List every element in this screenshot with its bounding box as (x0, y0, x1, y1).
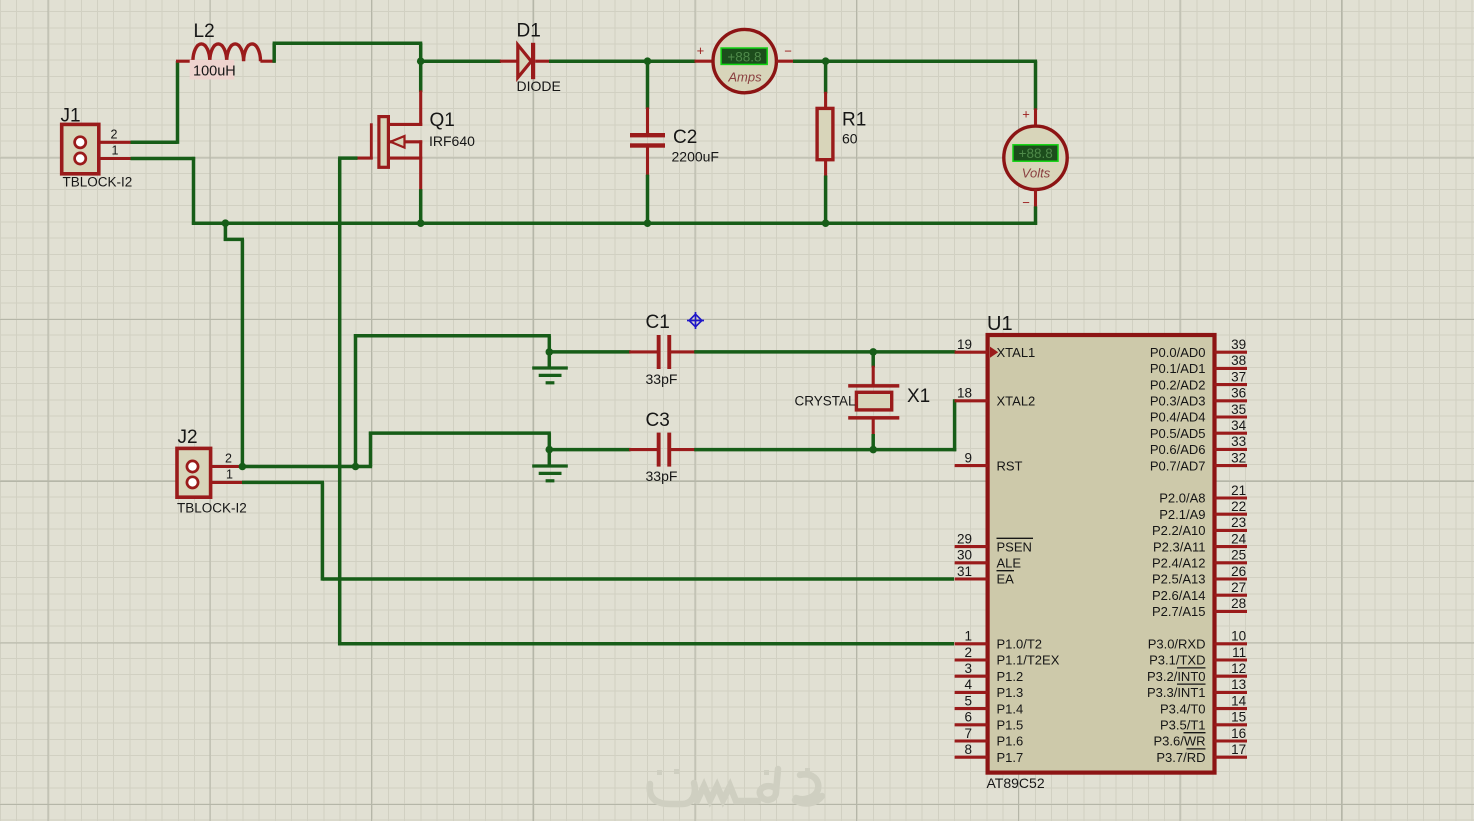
pin 22 P2.1/A9 (right stub) (1215, 513, 1248, 516)
crystal X1 bottom wire (871, 434, 875, 450)
pin 2 P1.1/T2EX (left stub) (955, 658, 988, 661)
svg-text:−: − (1022, 195, 1030, 210)
wire J1 pin1 riser (192, 157, 196, 225)
connector J1 body (62, 124, 99, 173)
wire J1 pin 1 stub (component lead) (99, 157, 131, 160)
pin 28 P2.7/A15 (right stub) (1215, 610, 1248, 613)
svg-text:P0.5/AD5: P0.5/AD5 (1150, 426, 1206, 441)
wire ammeter + lead (component lead) (695, 60, 714, 63)
svg-text:DIODE: DIODE (517, 78, 561, 94)
svg-text:2: 2 (111, 128, 118, 142)
svg-text:P3.0/RXD: P3.0/RXD (1148, 637, 1206, 652)
resistor R1 bottom lead (824, 160, 827, 177)
pin 14 P3.4/T0 (right stub) (1215, 707, 1248, 710)
node source/rail (junction) (417, 219, 425, 227)
svg-text:15: 15 (1231, 710, 1246, 725)
wire J2 pin2 run (242, 465, 372, 469)
svg-text:AT89C52: AT89C52 (987, 775, 1045, 791)
overline RD (1187, 748, 1206, 750)
svg-text:P3.6/WR: P3.6/WR (1153, 734, 1205, 749)
svg-text:XTAL2: XTAL2 (997, 394, 1036, 409)
voltmeter instrument circle (1004, 126, 1067, 189)
capacitor C2 top lead (646, 107, 649, 134)
pin 10 P3.0/RXD (right stub) (1215, 642, 1248, 645)
wire J2 pin 2 stub (component lead) (211, 465, 243, 468)
pin 23 P2.2/A10 (right stub) (1215, 529, 1248, 532)
wire top run to Q1 drain column (273, 41, 423, 45)
capacitor C3 right plate (667, 433, 671, 467)
crystal X1 top lead (872, 366, 875, 385)
svg-text:L2: L2 (194, 21, 215, 42)
svg-text:IRF640: IRF640 (429, 133, 475, 149)
svg-text:19: 19 (957, 337, 972, 352)
svg-text:P3.2/INT0: P3.2/INT0 (1147, 669, 1206, 684)
svg-text:28: 28 (1231, 596, 1246, 611)
pin 37 P0.2/AD2 (right stub) (1215, 383, 1248, 386)
node J2 pin2 (junction) (239, 463, 247, 471)
svg-text:11: 11 (1232, 645, 1246, 660)
transistor Q1 right vertical lead (419, 140, 422, 191)
pin 29 PSEN (left stub) (955, 545, 988, 548)
pin 34 P0.5/AD5 (right stub) (1215, 432, 1248, 435)
transistor Q1 body lead with arrow (388, 140, 422, 143)
wire inductor out up (272, 43, 276, 63)
svg-text:RST: RST (997, 458, 1023, 473)
crystal X1 top wire (871, 352, 875, 367)
voltmeter + lead (1034, 108, 1037, 127)
svg-text:XTAL1: XTAL1 (997, 345, 1036, 360)
transistor Q1 channel bar (379, 117, 389, 168)
svg-text:26: 26 (1231, 564, 1246, 579)
overline INTx (1177, 683, 1206, 685)
pin 30 ALE (left stub) (955, 561, 988, 564)
pin 19 XTAL1 (left stub) (955, 351, 988, 354)
pin 5 P1.4 (left stub) (955, 707, 988, 710)
svg-text:10: 10 (1231, 629, 1246, 644)
svg-text:16: 16 (1231, 726, 1246, 741)
svg-text:Amps: Amps (727, 70, 762, 85)
svg-text:P3.7/RD: P3.7/RD (1156, 750, 1205, 765)
wire voltmeter drop (1034, 61, 1038, 110)
node rail/J2 drop (junction) (222, 219, 230, 227)
overline INTx (1177, 667, 1206, 669)
svg-text:P0.4/AD4: P0.4/AD4 (1150, 410, 1206, 425)
svg-text:P2.5/A13: P2.5/A13 (1152, 572, 1206, 587)
node C2 bottom (junction) (644, 219, 652, 227)
svg-text:C2: C2 (673, 127, 697, 148)
pin 17 P3.7/RD (right stub) (1215, 756, 1248, 759)
svg-text:P3.5/T1: P3.5/T1 (1160, 718, 1206, 733)
svg-text:1: 1 (226, 468, 233, 482)
wire ammeter to R1 node to voltmeter corner (793, 59, 1037, 63)
svg-text:100uH: 100uH (193, 63, 236, 79)
svg-text:D1: D1 (517, 21, 541, 42)
svg-text:P0.3/AD3: P0.3/AD3 (1150, 394, 1206, 409)
svg-text:2: 2 (225, 452, 232, 466)
transistor Q1 drain horizontal lead (387, 123, 422, 126)
pin 24 P2.3/A11 (right stub) (1215, 545, 1248, 548)
svg-text:33pF: 33pF (646, 468, 678, 484)
svg-text:P2.1/A9: P2.1/A9 (1159, 507, 1205, 522)
node C1/ground (junction) (546, 348, 554, 356)
pin 4 P1.3 (left stub) (955, 691, 988, 694)
wire rail to J2 step right (224, 238, 244, 242)
wire C1 to crystal node (694, 350, 875, 354)
node C1 riser (junction) (352, 463, 360, 471)
transistor Q1 arrow (391, 136, 405, 148)
svg-text:P3.4/T0: P3.4/T0 (1160, 701, 1206, 716)
svg-text:P1.7: P1.7 (997, 750, 1024, 765)
svg-text:22: 22 (1231, 499, 1246, 514)
wire down to C1 node (548, 336, 552, 352)
label L2 value highlight box (190, 60, 235, 80)
node C3/ground (junction) (546, 446, 554, 454)
node origin marker (blue) (687, 312, 704, 329)
pin 7 P1.6 (left stub) (955, 739, 988, 742)
wire C3 right lead (component lead) (671, 448, 696, 451)
svg-text:37: 37 (1231, 369, 1246, 384)
transistor Q1 drain wire (green) (419, 61, 423, 92)
svg-text:P1.6: P1.6 (997, 734, 1024, 749)
wire down to drain node (419, 43, 423, 61)
capacitor C3 left plate (657, 433, 661, 467)
svg-text:J1: J1 (61, 106, 81, 127)
inductor L2 left lead (176, 60, 194, 63)
wire C1 riser up (354, 334, 358, 468)
inductor L2 coil (193, 44, 261, 61)
svg-text:+88.8: +88.8 (1019, 146, 1053, 161)
svg-text:P2.2/A10: P2.2/A10 (1152, 523, 1206, 538)
wire D1 anode lead (component lead) (500, 60, 517, 63)
svg-text:35: 35 (1231, 402, 1246, 417)
svg-text:24: 24 (1231, 531, 1247, 546)
ground (C1) lead (548, 352, 552, 367)
capacitor C1 left plate (657, 335, 661, 369)
capacitor C2 bottom plate (630, 143, 665, 147)
svg-text:32: 32 (1231, 450, 1246, 465)
node R1 top (junction) (822, 57, 830, 65)
pin XTAL1 clock arrow (990, 347, 998, 358)
pin 8 P1.7 (left stub) (955, 756, 988, 759)
pin 3 P1.2 (left stub) (955, 675, 988, 678)
pin 27 P2.6/A14 (right stub) (1215, 594, 1248, 597)
node drain top (junction) (417, 57, 425, 65)
wire down to J2 pin2 (241, 239, 245, 466)
node crystal top (junction) (869, 348, 877, 356)
transistor Q1 gate bar (370, 123, 373, 159)
svg-text:P0.6/AD6: P0.6/AD6 (1150, 442, 1206, 457)
svg-text:U1: U1 (987, 313, 1013, 335)
wire C1 feed run (354, 334, 551, 338)
svg-text:38: 38 (1231, 353, 1246, 368)
pin 18 XTAL2 (left stub) (955, 399, 988, 402)
wire D1 cathode lead (component lead) (535, 60, 550, 63)
svg-text:TBLOCK-I2: TBLOCK-I2 (63, 174, 133, 189)
connector J2 pad pin 1 (187, 477, 198, 488)
svg-text:+88.8: +88.8 (727, 49, 761, 64)
svg-text:36: 36 (1231, 386, 1246, 401)
svg-text:14: 14 (1231, 693, 1247, 708)
svg-text:P0.7/AD7: P0.7/AD7 (1150, 458, 1206, 473)
wire C2 node down (646, 61, 650, 109)
wire C1 node to cap (549, 350, 630, 354)
svg-text:29: 29 (957, 531, 972, 546)
svg-text:−: − (784, 44, 792, 59)
wire ground rail (192, 221, 1037, 225)
svg-text:P0.0/AD0: P0.0/AD0 (1150, 345, 1206, 360)
pin 39 P0.0/AD0 (right stub) (1215, 351, 1248, 354)
svg-text:CRYSTAL: CRYSTAL (794, 394, 856, 409)
transistor Q1 drain lead (419, 90, 422, 126)
svg-text:P2.6/A14: P2.6/A14 (1152, 588, 1206, 603)
pin 11 P3.1/TXD (right stub) (1215, 658, 1248, 661)
connector J1 pad pin 2 (75, 137, 86, 148)
resistor R1 top lead (824, 92, 827, 110)
svg-text:EA: EA (997, 572, 1015, 587)
svg-text:P1.2: P1.2 (997, 669, 1024, 684)
svg-text:1: 1 (112, 144, 119, 158)
svg-text:5: 5 (964, 693, 972, 708)
svg-text:P2.7/A15: P2.7/A15 (1152, 604, 1206, 619)
svg-text:8: 8 (964, 742, 972, 757)
capacitor C2 top plate (630, 133, 665, 137)
svg-text:PSEN: PSEN (997, 539, 1032, 554)
svg-text:Q1: Q1 (430, 110, 455, 131)
svg-text:TBLOCK-I2: TBLOCK-I2 (177, 501, 247, 516)
diode D1 triangle (518, 45, 531, 78)
wire C3 left lead (component lead) (629, 448, 657, 451)
wire P1.0 row run (338, 642, 954, 646)
svg-text:X1: X1 (907, 386, 930, 407)
wire crystal node to XTAL1 stub (873, 350, 956, 354)
svg-text:31: 31 (957, 564, 972, 579)
wire drain node to diode (421, 59, 501, 63)
svg-text:J2: J2 (178, 427, 198, 448)
wire R1 node down (824, 61, 828, 93)
svg-text:17: 17 (1231, 742, 1246, 757)
svg-text:3: 3 (964, 661, 972, 676)
node R1 bottom (junction) (822, 219, 830, 227)
crystal X1 bottom plate (848, 416, 899, 420)
svg-text:P2.4/A12: P2.4/A12 (1152, 556, 1206, 571)
svg-text:25: 25 (1231, 548, 1246, 563)
overline WR (1184, 732, 1206, 734)
wire EA row run (322, 577, 954, 581)
node C2 top (junction) (644, 57, 652, 65)
connector J1 pad pin 1 (75, 153, 86, 164)
wire C2 down to rail (646, 175, 650, 224)
svg-text:P3.1/TXD: P3.1/TXD (1149, 653, 1205, 668)
svg-text:P3.3/INT1: P3.3/INT1 (1147, 685, 1206, 700)
wire J1 pin1 to riser (131, 157, 196, 161)
pin 12 P3.2/INT0 (right stub) (1215, 675, 1248, 678)
diode D1 cathode bar (531, 43, 535, 79)
wire diode to C2 node and ammeter (549, 59, 696, 63)
svg-text:39: 39 (1231, 337, 1246, 352)
svg-text:4: 4 (964, 677, 972, 692)
svg-text:1: 1 (964, 629, 972, 644)
resistor R1 body (817, 108, 833, 159)
wire Q1 gate to gate column (338, 156, 357, 160)
crystal X1 top plate (848, 384, 899, 388)
wire ammeter - lead (component lead) (776, 60, 794, 63)
wire C3 node to cap (549, 448, 630, 452)
svg-text:33: 33 (1231, 434, 1246, 449)
pin 6 P1.5 (left stub) (955, 723, 988, 726)
pin 25 P2.4/A12 (right stub) (1215, 561, 1248, 564)
svg-text:2200uF: 2200uF (672, 149, 719, 165)
svg-text:P0.1/AD1: P0.1/AD1 (1150, 361, 1206, 376)
pin 33 P0.6/AD6 (right stub) (1215, 448, 1248, 451)
voltmeter - lead (1034, 189, 1037, 208)
svg-text:6: 6 (964, 710, 972, 725)
pin 13 P3.3/INT1 (right stub) (1215, 691, 1248, 694)
pin 38 P0.1/AD1 (right stub) (1215, 367, 1248, 370)
wire down to C3 node (548, 433, 552, 450)
svg-text:P2.3/A11: P2.3/A11 (1153, 539, 1206, 554)
op-amp U1 microcontroller body AT89C52 (988, 335, 1215, 773)
overline PSEN (997, 537, 1034, 539)
svg-text:12: 12 (1231, 661, 1246, 676)
svg-text:60: 60 (842, 131, 858, 147)
pin 35 P0.4/AD4 (right stub) (1215, 415, 1248, 418)
wire voltmeter to rail (1034, 206, 1038, 224)
wire C1 left lead (component lead) (629, 350, 657, 353)
svg-text:+: + (1022, 106, 1030, 121)
ground (C3) symbol (532, 466, 568, 481)
connector J2 body (177, 448, 211, 497)
svg-text:34: 34 (1231, 418, 1247, 433)
crystal X1 body (856, 392, 891, 410)
pin 21 P2.0/A8 (right stub) (1215, 496, 1248, 499)
wire corner down to EA row (321, 482, 325, 580)
svg-text:C3: C3 (646, 410, 670, 431)
wire crystal node to XTAL2 corner (873, 448, 956, 452)
svg-text:21: 21 (1231, 483, 1246, 498)
wire Q1 source down to rail (419, 189, 423, 223)
svg-text:18: 18 (957, 386, 972, 401)
connector J2 pad pin 2 (187, 461, 198, 472)
watermark (faint) (650, 768, 822, 804)
pin 36 P0.3/AD3 (right stub) (1215, 399, 1248, 402)
svg-text:P1.0/T2: P1.0/T2 (997, 637, 1043, 652)
voltmeter display (1013, 145, 1058, 161)
pin 32 P0.7/AD7 (right stub) (1215, 464, 1248, 467)
pin 1 P1.0/T2 (left stub) (955, 642, 988, 645)
svg-text:P1.3: P1.3 (997, 685, 1024, 700)
wire C3 to crystal node (694, 448, 875, 452)
node crystal bottom (junction) (869, 446, 877, 454)
transistor Q1 source horizontal lead (387, 157, 422, 160)
svg-text:2: 2 (964, 645, 972, 660)
svg-text:P1.5: P1.5 (997, 718, 1024, 733)
svg-text:P1.4: P1.4 (997, 701, 1024, 716)
svg-text:P0.2/AD2: P0.2/AD2 (1150, 377, 1206, 392)
svg-text:ALE: ALE (997, 556, 1022, 571)
svg-text:R1: R1 (842, 110, 866, 131)
svg-text:+: + (697, 43, 705, 58)
svg-text:P1.1/T2EX: P1.1/T2EX (997, 653, 1060, 668)
capacitor C2 bottom lead (646, 147, 649, 176)
wire C3 feed run (369, 431, 551, 435)
wire rail to J2 step down (224, 223, 228, 241)
wire J1 pin2 to corner (131, 141, 178, 145)
svg-text:9: 9 (964, 450, 972, 465)
wire C1 right lead (component lead) (671, 350, 696, 353)
wire up to C3 row (369, 432, 373, 467)
svg-text:27: 27 (1231, 580, 1246, 595)
svg-text:7: 7 (964, 726, 972, 741)
pin 9 RST (left stub) (955, 464, 988, 467)
pin 16 P3.6/WR (right stub) (1215, 739, 1248, 742)
svg-text:P2.0/A8: P2.0/A8 (1159, 491, 1205, 506)
wire J2 pin1 to corner (242, 481, 324, 485)
ammeter display (721, 48, 767, 64)
transistor Q1 gate lead (356, 157, 373, 160)
svg-text:23: 23 (1231, 515, 1246, 530)
svg-text:33pF: 33pF (646, 371, 678, 387)
wire J2 pin 1 stub (component lead) (211, 481, 244, 484)
capacitor C1 right plate (667, 335, 671, 369)
crystal X1 bottom lead (872, 419, 875, 436)
ground (C1) symbol (532, 368, 568, 383)
wire XTAL2 riser (953, 399, 957, 451)
wire J1 pin 2 stub (component lead) (99, 141, 131, 144)
ground (C3) lead (548, 450, 552, 465)
overline EA (997, 570, 1015, 572)
pin 26 P2.5/A13 (right stub) (1215, 577, 1248, 580)
ammeter instrument circle (713, 29, 776, 92)
pin 15 P3.5/T1 (right stub) (1215, 723, 1248, 726)
svg-text:C1: C1 (646, 312, 670, 333)
inductor L2 right lead (260, 60, 275, 63)
svg-text:13: 13 (1231, 677, 1246, 692)
wire R1 down to rail (824, 176, 828, 224)
pin 31 EA (left stub) (955, 577, 988, 580)
wire gate column down to P1.0 row (338, 158, 342, 645)
svg-text:30: 30 (957, 548, 972, 563)
wire corner up to inductor row (176, 61, 180, 144)
svg-text:Volts: Volts (1022, 166, 1051, 181)
